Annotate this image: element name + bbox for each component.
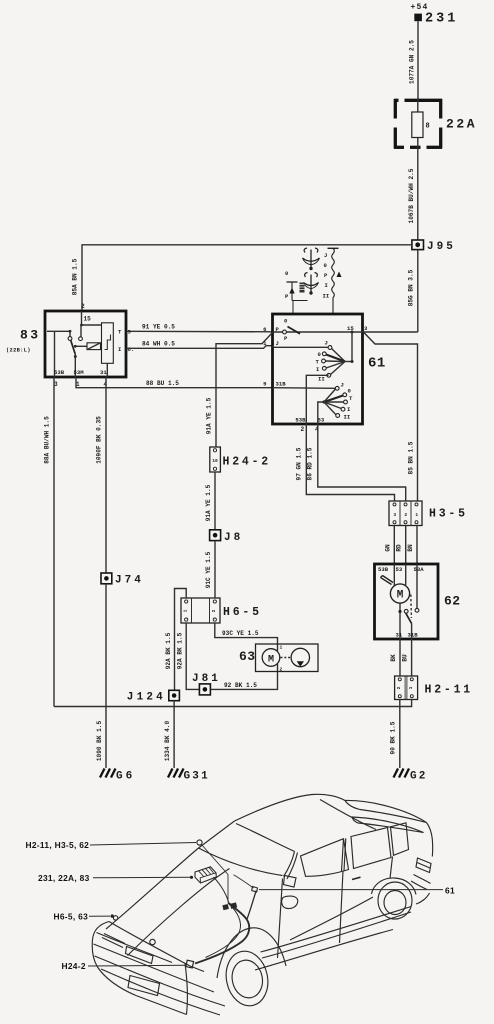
joint J95 — [412, 240, 456, 253]
wire pin3 junction to H3-5 pin1 (85 BN 1.5) — [363, 332, 418, 501]
unit61 washer switch — [283, 330, 287, 334]
bottom wire 31B bus to H2-11 pin1 — [54, 700, 412, 707]
car rear bumper — [414, 875, 431, 884]
car front wheel — [217, 928, 286, 1010]
svg-text:2: 2 — [396, 686, 402, 689]
car grille and badge — [102, 934, 155, 948]
connector H6-5 — [181, 598, 262, 623]
car body front bumper — [92, 922, 225, 1016]
car door mirror and handle — [282, 876, 298, 909]
svg-text:15: 15 — [84, 316, 92, 323]
car rear deck and trunk — [320, 800, 433, 890]
column switch unit 61 — [263, 314, 386, 433]
motor crank linkage symbol — [381, 576, 394, 585]
car cowl harness — [195, 877, 256, 964]
wire 1077A GN 2.5 — [409, 21, 419, 99]
svg-text:J124: J124 — [127, 692, 166, 704]
wire H6-5 pin1 bottom to J81 (92A BK 1.5) — [177, 623, 200, 689]
wire 91 YE 0.5 relay pin5 to unit61 pin6 — [126, 324, 272, 332]
svg-text:0: 0 — [348, 388, 352, 395]
svg-text:H6-5, 63: H6-5, 63 — [54, 912, 89, 922]
wire 88A BU/WH 1.5 relay pin3 down — [44, 377, 55, 707]
svg-text:1: 1 — [415, 512, 418, 518]
wire unit61 pin2 to H3-5 pin3 (97 GN 1.5) — [296, 424, 395, 501]
connector H3-5 — [389, 501, 468, 526]
svg-text:53: 53 — [318, 417, 325, 424]
svg-text:231, 22A, 83: 231, 22A, 83 — [38, 873, 90, 883]
svg-text:85A BN 1.5: 85A BN 1.5 — [72, 258, 79, 295]
svg-text:J: J — [276, 340, 279, 347]
svg-text:53: 53 — [396, 566, 403, 573]
svg-text:J81: J81 — [192, 673, 221, 685]
wire 84 WH 0.5 relay pin8 to unit61 pin1 — [126, 341, 272, 349]
ground G31 — [168, 769, 210, 783]
svg-text:53M: 53M — [74, 369, 85, 376]
svg-text:J74: J74 — [115, 575, 144, 587]
unit61 J contact wire to pin1 — [273, 346, 274, 348]
car label 61 — [234, 875, 455, 896]
wire 88 BU 1.5 relay pin1 to unit61 pin9 — [76, 377, 273, 388]
svg-text:1067B BU/WH 2.5: 1067B BU/WH 2.5 — [408, 168, 415, 223]
svg-text:J: J — [325, 340, 328, 347]
svg-text:8.: 8. — [128, 346, 135, 353]
svg-text:1090F BK 0.35: 1090F BK 0.35 — [96, 416, 103, 464]
svg-text:G6: G6 — [116, 771, 135, 783]
car sills and lower body — [255, 857, 430, 971]
svg-text:1: 1 — [182, 609, 188, 612]
svg-text:H24-2: H24-2 — [62, 961, 86, 971]
unit61 31B wire to lower fan J contact — [273, 387, 336, 390]
svg-text:85G BN 3.5: 85G BN 3.5 — [408, 269, 415, 306]
svg-text:231: 231 — [425, 12, 458, 27]
svg-text:1077A GN 2.5: 1077A GN 2.5 — [409, 40, 416, 84]
wire H24-2 to J8 (91A YE 1.5) — [205, 472, 215, 530]
svg-text:88 BU 1.5: 88 BU 1.5 — [146, 380, 179, 387]
svg-text:T: T — [118, 328, 122, 335]
svg-text:II: II — [323, 293, 330, 300]
svg-text:92A BK 1.5: 92A BK 1.5 — [165, 632, 172, 669]
unit61 internal rail 15 — [273, 331, 363, 333]
car label H24-2 — [62, 960, 194, 971]
svg-text:I: I — [316, 366, 319, 373]
car hood edges — [106, 848, 230, 972]
svg-text:M: M — [397, 590, 404, 602]
wire J95 to relay (85A BN 1.5) — [72, 245, 412, 311]
svg-text:8: 8 — [426, 123, 430, 131]
svg-text:61: 61 — [445, 886, 455, 896]
svg-text:P: P — [285, 293, 289, 300]
svg-text:I: I — [347, 406, 350, 413]
connector H24-2 — [210, 447, 271, 472]
joint J81 — [192, 673, 221, 695]
svg-text:63: 63 — [239, 649, 256, 664]
motor park switch — [399, 603, 401, 639]
wire J95 down 85G BN 3.5 — [408, 250, 418, 332]
svg-text:92A BK 1.5: 92A BK 1.5 — [177, 632, 184, 669]
svg-text:3: 3 — [364, 325, 368, 332]
svg-text:P: P — [284, 335, 288, 342]
svg-text:91 YE 0.5: 91 YE 0.5 — [142, 324, 175, 331]
wire unit61 pin4 to H3-5 pin2 (86 RD 1.5) — [307, 424, 406, 501]
car headlight — [126, 947, 154, 964]
wires H3-5 to motor 62 (GN RD BN) — [384, 526, 417, 565]
svg-text:83: 83 — [20, 328, 41, 343]
wire 1067B BU/WH 2.5 — [408, 149, 418, 241]
wire J74 to G6 — [96, 584, 106, 768]
svg-text:BN: BN — [407, 544, 414, 552]
svg-text:15: 15 — [347, 325, 354, 332]
svg-text:1: 1 — [408, 686, 414, 689]
washer icon left of unit 61 — [285, 270, 308, 314]
svg-text:H6-5: H6-5 — [223, 606, 262, 619]
car label H6-5, 63 — [54, 912, 118, 922]
svg-text:3: 3 — [393, 512, 396, 518]
svg-text:GN: GN — [384, 544, 391, 552]
svg-text:90 BK 1.5: 90 BK 1.5 — [390, 721, 397, 754]
svg-text:88A BU/WH 1.5: 88A BU/WH 1.5 — [44, 416, 51, 464]
svg-text:91A YE 1.5: 91A YE 1.5 — [205, 484, 212, 521]
unit61 wiper selector upper fan — [345, 361, 352, 363]
unit61 lower fan hub to pin4 — [318, 402, 324, 424]
svg-text:61: 61 — [368, 356, 386, 372]
car label H2-11, H3-5, 62 — [26, 840, 229, 902]
svg-text:1090 BK 1.5: 1090 BK 1.5 — [96, 721, 103, 762]
washer pump 63 — [239, 644, 318, 673]
svg-text:J: J — [341, 382, 344, 389]
svg-text:RD: RD — [396, 544, 403, 552]
svg-text:I: I — [325, 282, 328, 289]
svg-text:53A: 53A — [414, 566, 425, 573]
joint J74 — [101, 573, 144, 587]
svg-text:84 WH 0.5: 84 WH 0.5 — [142, 341, 175, 348]
svg-text:53B: 53B — [54, 369, 65, 376]
wire H6-5 pin1 top loop to J124 (92A BK 1.5) — [165, 589, 186, 691]
wire unit61 pin6 branch to H24-2 (91A YE 1.5) — [206, 333, 273, 448]
relay 83 intermittent wiper relay — [6, 303, 134, 388]
car rear wheel — [372, 878, 417, 919]
svg-text:T: T — [349, 395, 353, 402]
car windshield and roof — [199, 794, 346, 879]
wire J81 to pump pin2 (92 BK 1.5) — [210, 664, 277, 690]
svg-text:H24-2: H24-2 — [223, 456, 272, 469]
svg-text:86 RD 1.5: 86 RD 1.5 — [307, 447, 314, 480]
car rear door handle — [352, 877, 361, 879]
svg-text:22A: 22A — [446, 117, 477, 132]
wiper icon intermittent above unit 61 — [304, 273, 319, 295]
unit61 wiper selector lower fan — [322, 400, 325, 403]
svg-text:1: 1 — [280, 645, 283, 651]
svg-text:0: 0 — [318, 351, 322, 358]
wire 1090F BK 0.35 relay pin4 down — [96, 377, 107, 573]
node +54 supply 231 — [411, 3, 459, 27]
car side windows — [301, 823, 409, 877]
svg-text:II: II — [318, 376, 325, 383]
svg-text:9: 9 — [263, 381, 267, 388]
svg-text:97 GN 1.5: 97 GN 1.5 — [296, 447, 303, 480]
wire H2-11 pin2 to G2 (90 BK 1.5) — [390, 700, 400, 769]
joint J8 — [210, 530, 244, 544]
svg-text:H2-11, H3-5, 62: H2-11, H3-5, 62 — [26, 840, 90, 850]
svg-text:53B: 53B — [378, 566, 389, 573]
wire H6-5 pin2 to pump pin1 (93C YE 1.5) — [215, 623, 278, 651]
wires 62 to H2-11 (BK BU) — [390, 639, 412, 676]
svg-text:I: I — [118, 346, 121, 353]
joint J124 — [127, 690, 180, 703]
wire J124 to G31 (1334 BK 4.0) — [164, 701, 174, 768]
svg-text:J95: J95 — [427, 241, 456, 253]
wire J8 to H6-5 (91C YE 1.5) — [205, 541, 215, 598]
svg-text:M: M — [268, 654, 274, 665]
ground G2 — [394, 769, 428, 783]
position ladder J 0 P I II above unit 61 — [323, 248, 342, 314]
svg-text:H2-11: H2-11 — [425, 684, 474, 697]
svg-text:31B: 31B — [408, 632, 419, 639]
svg-text:T: T — [316, 359, 320, 366]
wiper icon single-sweep above unit 61 — [303, 248, 320, 270]
svg-text:91C YE 1.5: 91C YE 1.5 — [205, 551, 212, 588]
svg-text:10: 10 — [212, 458, 218, 464]
connector H2-11 — [395, 676, 473, 700]
svg-text:31: 31 — [396, 632, 403, 639]
svg-text:(22B:L): (22B:L) — [6, 348, 31, 354]
svg-text:31B: 31B — [276, 381, 287, 388]
svg-text:2: 2 — [301, 426, 305, 433]
svg-text:J8: J8 — [224, 532, 243, 544]
svg-text:92 BK 1.5: 92 BK 1.5 — [224, 682, 257, 689]
svg-text:91A YE 1.5: 91A YE 1.5 — [206, 397, 213, 434]
svg-text:BU: BU — [402, 654, 409, 662]
car license plate — [128, 976, 160, 996]
car label 231, 22A, 83 — [38, 873, 193, 883]
svg-text:2: 2 — [81, 303, 85, 310]
fuse 22A (fuse 8) — [394, 99, 477, 149]
svg-text:2: 2 — [280, 667, 283, 673]
svg-text:31: 31 — [100, 369, 107, 376]
svg-text:0: 0 — [285, 270, 289, 277]
svg-text:II: II — [344, 414, 351, 421]
unit61 II contact to pin2 — [306, 375, 328, 424]
svg-text:1334 BK 4.0: 1334 BK 4.0 — [164, 721, 171, 762]
svg-text:G2: G2 — [410, 771, 428, 783]
svg-text:0: 0 — [324, 262, 328, 269]
svg-text:53B: 53B — [295, 417, 306, 424]
ground G6 — [100, 769, 135, 783]
svg-text:62: 62 — [444, 594, 461, 609]
svg-text:2: 2 — [211, 609, 217, 612]
svg-text:85 BN 1.5: 85 BN 1.5 — [408, 441, 415, 474]
car taillight — [416, 858, 431, 873]
svg-text:G31: G31 — [184, 771, 210, 783]
svg-text:0: 0 — [284, 318, 288, 325]
svg-text:BK: BK — [390, 654, 397, 662]
car fusebox icon — [195, 867, 216, 883]
svg-text:J: J — [324, 252, 327, 259]
svg-text:H3-5: H3-5 — [429, 508, 468, 521]
svg-text:P: P — [324, 272, 328, 279]
svg-text:93C YE 1.5: 93C YE 1.5 — [222, 630, 259, 637]
wiper motor 62 — [375, 564, 461, 639]
svg-text:2: 2 — [404, 512, 407, 518]
